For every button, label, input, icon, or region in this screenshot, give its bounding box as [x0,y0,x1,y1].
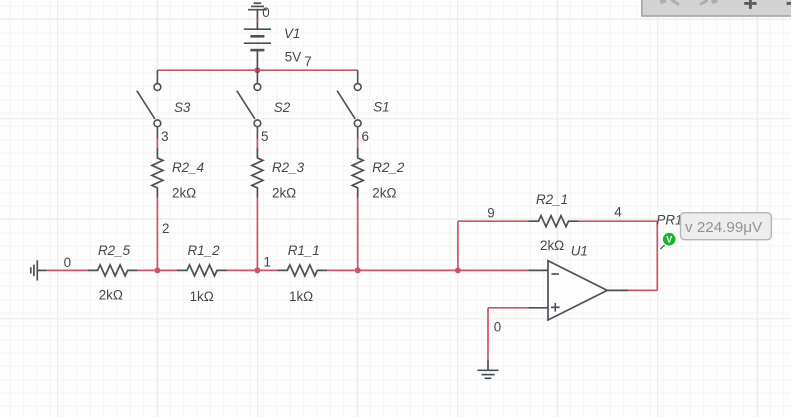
junction feedback tap [455,267,461,273]
zoom-out button [787,2,791,5]
wire S1 to R2_2 [357,139,359,148]
resistor R1_2 [177,265,227,276]
svg-text:3: 3 [161,129,168,144]
wire R2_4 to bus (net 2) [156,198,158,271]
svg-text:v 224.99μV: v 224.99μV [685,219,763,236]
junction node1 [254,267,260,273]
zoom-in button [744,0,756,9]
svg-text:7: 7 [304,54,311,69]
svg-text:U1: U1 [571,244,588,259]
ground GND top (above V1) [248,3,267,29]
svg-text:R1_1: R1_1 [288,243,320,258]
wire feedback right (net 4) [579,220,658,222]
svg-text:0: 0 [64,255,71,270]
wire R2_3 to bus [256,198,258,271]
junction battery-bus [254,67,260,73]
toolbar left border [641,0,643,17]
junction node6 bus [355,267,361,273]
svg-text:4: 4 [614,205,622,220]
svg-text:9: 9 [487,206,494,221]
switch S1 [337,70,361,138]
svg-text:S1: S1 [373,100,389,115]
svg-text:R2_2: R2_2 [372,160,405,175]
resistor R2_2 [352,148,363,198]
svg-text:0: 0 [494,320,501,335]
wire R1_2 to R1_1 (net 1) [227,269,277,271]
wire R1_1 to op-amp input [327,269,528,271]
wire R2_2 to bus [357,198,359,271]
ground GND bottom (op-amp) [478,360,499,378]
svg-text:1: 1 [264,255,271,270]
svg-text:5V: 5V [285,50,301,65]
svg-text:V1: V1 [284,26,300,41]
svg-text:5: 5 [261,129,268,144]
svg-text:S2: S2 [274,100,291,115]
svg-text:0: 0 [262,5,269,20]
svg-text:2: 2 [162,221,169,236]
svg-text:1kΩ: 1kΩ [190,289,214,304]
probe pointer tail [660,245,664,249]
wire S3 to R2_4 [156,139,158,148]
wire feedback left (net 9) [458,220,529,222]
resistor R2_4 [152,148,163,198]
battery V1 [244,29,271,70]
toolbar background [642,0,791,15]
svg-text:2kΩ: 2kΩ [540,238,564,253]
svg-text:V: V [666,235,673,245]
wire top bus (net 7) [157,69,357,71]
svg-text:R1_2: R1_2 [188,243,221,258]
probe PR1 green circle [663,233,676,246]
svg-text:1kΩ: 1kΩ [289,289,313,304]
resistor R2_5 [88,265,138,276]
wire S2 to R2_3 [256,139,258,148]
switch S2 [237,70,261,138]
resistor R2_1 [529,216,579,227]
svg-text:2kΩ: 2kΩ [172,186,196,201]
svg-text:S3: S3 [174,100,191,115]
svg-text:2kΩ: 2kΩ [99,288,123,303]
probe tooltip box [681,213,772,240]
svg-text:R2_1: R2_1 [536,192,568,207]
switch S3 [137,70,161,138]
wire non-inverting input [488,308,529,360]
resistor R1_1 [277,265,327,276]
svg-text:6: 6 [362,129,369,144]
redo icon [700,0,718,5]
op-amp U1 [529,261,629,320]
wire op-amp output [628,221,657,290]
toolbar bottom border [642,15,791,17]
resistor R2_3 [252,148,263,198]
svg-text:R2_5: R2_5 [98,243,131,258]
wire dot battery terminal [256,19,258,21]
ground GND left [31,260,47,280]
svg-text:2kΩ: 2kΩ [372,186,396,201]
undo icon [660,0,679,5]
svg-text:R2_3: R2_3 [272,160,305,175]
junction node2 [154,267,160,273]
svg-text:PR1: PR1 [656,213,682,228]
svg-text:2kΩ: 2kΩ [272,186,296,201]
wire R2_5 to node 2 [138,269,177,271]
wire feedback riser [457,221,459,270]
svg-text:R2_4: R2_4 [172,160,204,175]
wire ground to R2_5 [47,269,88,271]
